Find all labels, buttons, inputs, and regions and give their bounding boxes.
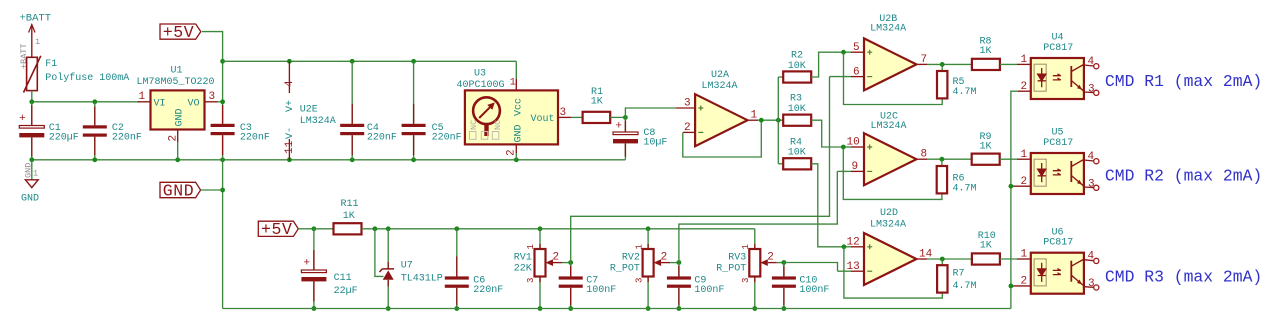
svg-text:100nF: 100nF bbox=[586, 285, 616, 296]
wire rail down to U3 Vcc bbox=[515, 61, 517, 79]
node U2C pin10 junction bbox=[841, 145, 846, 150]
svg-text:1: 1 bbox=[1021, 249, 1028, 261]
shunt regulator U7 TL431LP bbox=[375, 229, 443, 309]
svg-text:Polyfuse 100mA: Polyfuse 100mA bbox=[45, 72, 129, 84]
svg-text:LM324A: LM324A bbox=[702, 81, 738, 92]
svg-text:220nF: 220nF bbox=[367, 133, 397, 144]
op-amp U2D bbox=[838, 208, 933, 285]
node U2A out feedback tee bbox=[759, 118, 764, 123]
svg-text:2: 2 bbox=[661, 252, 668, 264]
wire RV2 wiper to U2C pin9 bbox=[679, 171, 837, 262]
svg-text:VO: VO bbox=[188, 99, 200, 110]
svg-text:2: 2 bbox=[553, 252, 560, 264]
svg-text:3: 3 bbox=[684, 98, 691, 110]
wire U2C output bbox=[927, 158, 972, 160]
node RV2 top bbox=[646, 226, 651, 231]
svg-text:1: 1 bbox=[741, 244, 751, 249]
resistor R6 bbox=[937, 159, 977, 194]
svg-text:RV2: RV2 bbox=[622, 253, 640, 264]
svg-text:RV1: RV1 bbox=[514, 253, 532, 264]
wire bottom GND rail bbox=[223, 308, 1011, 310]
svg-text:V-: V- bbox=[285, 127, 296, 139]
node C5 top bbox=[411, 59, 416, 64]
node C2 gnd bbox=[92, 157, 97, 162]
wire R2 to U2B pin5 bbox=[811, 52, 843, 77]
wire R2 R3 R4 left bus bbox=[777, 77, 779, 164]
node RV2 gnd bbox=[646, 306, 651, 311]
svg-text:2: 2 bbox=[767, 252, 774, 264]
svg-text:220nF: 220nF bbox=[432, 133, 462, 144]
svg-text:R_POT: R_POT bbox=[716, 264, 746, 275]
node C3 gnd bbox=[220, 157, 225, 162]
svg-text:TL431LP: TL431LP bbox=[401, 274, 443, 285]
svg-text:2: 2 bbox=[1021, 81, 1028, 93]
svg-text:10K: 10K bbox=[788, 148, 806, 159]
capacitor C6 bbox=[445, 229, 504, 309]
svg-text:R_POT: R_POT bbox=[610, 264, 640, 275]
svg-text:1: 1 bbox=[526, 244, 536, 249]
fuse F1 bbox=[24, 56, 130, 93]
capacitor C10 bbox=[772, 263, 830, 309]
op-amp U2C bbox=[837, 112, 927, 186]
svg-text:+: + bbox=[616, 121, 623, 133]
node RV2 wiper tee bbox=[677, 260, 682, 265]
wire GND mid rail bbox=[32, 159, 626, 161]
svg-text:+5V: +5V bbox=[261, 220, 293, 239]
node +5V C11 tee bbox=[312, 226, 317, 231]
resistor R1 bbox=[571, 87, 625, 123]
wire R4 to U2D pin12 bbox=[811, 164, 844, 247]
svg-text:3: 3 bbox=[1088, 179, 1095, 191]
svg-text:6: 6 bbox=[853, 66, 860, 78]
svg-text:3: 3 bbox=[560, 107, 567, 119]
optocoupler U6 PC817 bbox=[1012, 227, 1099, 293]
node U1 pin2 gnd bbox=[175, 157, 180, 162]
svg-text:3: 3 bbox=[209, 91, 216, 103]
resistor R3 bbox=[783, 94, 811, 126]
resistor R11 bbox=[314, 199, 362, 235]
node C10 gnd bbox=[782, 306, 787, 311]
node RV3 wiper tee bbox=[782, 260, 787, 265]
svg-text:3: 3 bbox=[1088, 84, 1095, 96]
svg-text:1: 1 bbox=[1021, 149, 1028, 161]
node C2 junction bbox=[92, 99, 97, 104]
svg-text:4: 4 bbox=[1088, 151, 1095, 163]
capacitor C11 bbox=[301, 229, 357, 309]
svg-text:NC: NC bbox=[493, 120, 503, 130]
node C9 gnd bbox=[677, 306, 682, 311]
svg-text:1: 1 bbox=[510, 78, 516, 89]
svg-text:V+: V+ bbox=[285, 100, 296, 112]
svg-text:8: 8 bbox=[921, 149, 928, 161]
svg-text:+BATT: +BATT bbox=[20, 13, 52, 25]
svg-text:Vout: Vout bbox=[530, 114, 554, 125]
wire RV3 wiper to U2D pin13 bbox=[784, 263, 838, 272]
wire RV1 wiper to U2B pin6 bbox=[571, 77, 830, 263]
resistor R5 bbox=[937, 64, 977, 98]
svg-text:2: 2 bbox=[506, 149, 518, 156]
svg-text:220nF: 220nF bbox=[112, 133, 142, 144]
resistor R9 bbox=[972, 132, 1031, 165]
capacitor C5 bbox=[402, 61, 462, 160]
power symbol +BATT bbox=[19, 13, 51, 70]
svg-text:220nF: 220nF bbox=[240, 133, 270, 144]
capacitor C1 bbox=[19, 102, 79, 160]
node C7 gnd bbox=[568, 306, 573, 311]
svg-text:+: + bbox=[19, 113, 26, 125]
svg-text:U7: U7 bbox=[401, 260, 413, 271]
svg-text:4: 4 bbox=[284, 80, 296, 87]
sensor U3 40PC100G bbox=[457, 69, 572, 160]
svg-text:LM324A: LM324A bbox=[870, 24, 906, 35]
svg-text:1: 1 bbox=[1021, 54, 1028, 66]
svg-text:GND: GND bbox=[175, 108, 186, 126]
node U2D pin12 junction bbox=[842, 244, 847, 249]
resistor R7 bbox=[937, 259, 976, 293]
node U7 ref tee bbox=[373, 226, 378, 231]
node C11 gnd bbox=[312, 306, 317, 311]
svg-text:CMD R3 (max 2mA): CMD R3 (max 2mA) bbox=[1105, 267, 1262, 286]
svg-text:4: 4 bbox=[1088, 251, 1095, 263]
svg-text:1K: 1K bbox=[980, 142, 992, 153]
svg-text:Vcc: Vcc bbox=[514, 98, 525, 116]
wire U2B output bbox=[927, 63, 972, 65]
svg-text:C11: C11 bbox=[334, 273, 352, 284]
node RV1 gnd bbox=[538, 306, 543, 311]
svg-text:F1: F1 bbox=[45, 59, 57, 70]
capacitor C4 bbox=[340, 61, 397, 160]
node U6 pin2 on cathode bus bbox=[1009, 284, 1014, 289]
potentiometer RV2 bbox=[610, 229, 679, 309]
svg-text:1: 1 bbox=[751, 110, 758, 122]
capacitor C2 bbox=[83, 102, 142, 160]
svg-text:PC817: PC817 bbox=[1043, 43, 1073, 54]
svg-text:10: 10 bbox=[847, 137, 860, 149]
node U1 VO junction bbox=[220, 99, 225, 104]
node U5 pin2 on cathode bus bbox=[1009, 184, 1014, 189]
op-amp U2E power unit LM324A bbox=[284, 61, 336, 160]
svg-text:3: 3 bbox=[741, 278, 751, 283]
svg-text:VI: VI bbox=[154, 99, 166, 110]
svg-text:22K: 22K bbox=[514, 264, 532, 275]
svg-text:GND: GND bbox=[21, 193, 39, 204]
wire U2D output bbox=[927, 258, 972, 260]
svg-text:3: 3 bbox=[1088, 278, 1095, 290]
node U2B pin5 junction bbox=[841, 50, 846, 55]
svg-text:2: 2 bbox=[1021, 176, 1028, 188]
svg-text:NC: NC bbox=[469, 120, 479, 130]
svg-text:1K: 1K bbox=[980, 46, 992, 57]
node U3 gnd bbox=[514, 157, 519, 162]
resistor R8 bbox=[972, 36, 1031, 70]
svg-text:13: 13 bbox=[847, 261, 860, 273]
node C4 gnd bbox=[350, 157, 355, 162]
svg-text:100nF: 100nF bbox=[799, 285, 829, 296]
resistor R4 bbox=[783, 137, 811, 169]
svg-text:1K: 1K bbox=[343, 211, 355, 222]
wire U2D hysteresis feedback bbox=[844, 247, 942, 298]
svg-text:220µF: 220µF bbox=[49, 133, 79, 144]
svg-text:12: 12 bbox=[847, 237, 860, 249]
svg-text:2: 2 bbox=[1021, 276, 1028, 288]
capacitor C3 bbox=[211, 105, 270, 160]
power flag +5V lower bbox=[258, 220, 314, 239]
node RV3 gnd bbox=[752, 306, 757, 311]
svg-text:4.7M: 4.7M bbox=[953, 87, 977, 98]
node C6 top bbox=[454, 226, 459, 231]
svg-text:100nF: 100nF bbox=[694, 285, 724, 296]
svg-text:3: 3 bbox=[634, 278, 644, 283]
svg-text:10K: 10K bbox=[788, 61, 806, 72]
wire Vref net bbox=[362, 228, 755, 230]
svg-text:U1: U1 bbox=[171, 66, 183, 77]
node GND flag tee bbox=[220, 188, 225, 193]
node U7 cathode tee bbox=[386, 226, 391, 231]
svg-text:4.7M: 4.7M bbox=[953, 184, 977, 195]
svg-text:U2A: U2A bbox=[711, 70, 729, 81]
svg-text:RV3: RV3 bbox=[728, 253, 746, 264]
potentiometer RV3 bbox=[716, 229, 784, 309]
svg-text:1: 1 bbox=[33, 169, 38, 179]
svg-text:LM324A: LM324A bbox=[300, 116, 336, 127]
wire input rail bbox=[32, 101, 139, 103]
svg-text:220nF: 220nF bbox=[473, 285, 503, 296]
node R1/C8 junction bbox=[623, 115, 628, 120]
op-amp U2A bbox=[676, 70, 758, 146]
svg-text:GND: GND bbox=[514, 124, 525, 142]
node U7 gnd bbox=[386, 306, 391, 311]
wire U2A output bbox=[758, 119, 783, 121]
svg-text:4.7M: 4.7M bbox=[953, 281, 977, 292]
wire R3 to U2C pin10 bbox=[811, 120, 843, 147]
svg-text:PC817: PC817 bbox=[1043, 138, 1073, 149]
potentiometer RV1 bbox=[514, 229, 571, 309]
svg-text:11: 11 bbox=[284, 140, 296, 154]
svg-text:22µF: 22µF bbox=[334, 286, 358, 297]
svg-text:1: 1 bbox=[634, 244, 644, 249]
node R bus tee bbox=[776, 118, 781, 123]
svg-text:+5V: +5V bbox=[163, 23, 195, 42]
svg-text:10µF: 10µF bbox=[643, 138, 667, 149]
svg-text:1: 1 bbox=[35, 37, 40, 47]
node RV1 top bbox=[538, 226, 543, 231]
svg-text:1K: 1K bbox=[591, 97, 603, 108]
svg-text:U3: U3 bbox=[474, 69, 486, 80]
svg-text:+: + bbox=[304, 258, 311, 270]
node C6 gnd bbox=[454, 306, 459, 311]
svg-text:+BATT: +BATT bbox=[19, 43, 29, 69]
svg-text:10K: 10K bbox=[788, 104, 806, 115]
power flag +5V top bbox=[160, 23, 201, 42]
capacitor C9 bbox=[667, 263, 725, 309]
node U2E pin4 bbox=[287, 59, 292, 64]
op-amp U2B bbox=[830, 14, 928, 91]
resistor R10 bbox=[972, 231, 1031, 265]
node R7 top bbox=[940, 257, 945, 262]
wire U2B hysteresis feedback bbox=[844, 52, 943, 104]
svg-text:LM78M05_TO220: LM78M05_TO220 bbox=[137, 77, 215, 88]
optocoupler U4 PC817 bbox=[1018, 33, 1099, 99]
node U2E pin11 gnd bbox=[287, 157, 292, 162]
svg-text:R7: R7 bbox=[953, 269, 965, 280]
ground symbol GND left bbox=[21, 160, 39, 205]
node fuse/C1 junction bbox=[29, 99, 34, 104]
wire junction up to U2A + bbox=[625, 108, 676, 117]
node C4 top bbox=[350, 59, 355, 64]
regulator U1 LM78M05_TO220 bbox=[137, 66, 223, 160]
svg-text:7: 7 bbox=[921, 54, 928, 66]
power flag GND bbox=[160, 181, 223, 200]
wire +5V top rail bbox=[223, 60, 517, 62]
svg-text:U2D: U2D bbox=[880, 208, 898, 219]
svg-text:PC817: PC817 bbox=[1043, 238, 1073, 249]
svg-text:CMD R1 (max 2mA): CMD R1 (max 2mA) bbox=[1105, 72, 1262, 91]
capacitor C8 bbox=[613, 117, 667, 159]
wire U2C hysteresis feedback bbox=[843, 147, 942, 199]
svg-text:1: 1 bbox=[139, 91, 146, 103]
svg-text:2: 2 bbox=[168, 135, 180, 142]
node R5 top bbox=[940, 62, 945, 67]
capacitor C7 bbox=[559, 263, 617, 309]
node RV1 wiper tee bbox=[568, 260, 573, 265]
svg-text:LM324A: LM324A bbox=[871, 121, 907, 132]
wire fuse to input rail bbox=[31, 91, 33, 102]
wire opto cathode bus bbox=[1011, 91, 1018, 308]
svg-text:2: 2 bbox=[684, 122, 691, 134]
svg-text:U2E: U2E bbox=[300, 104, 318, 115]
node C1 gnd bbox=[29, 157, 34, 162]
svg-text:4: 4 bbox=[1088, 56, 1095, 68]
node R6 top bbox=[940, 157, 945, 162]
svg-text:1K: 1K bbox=[980, 240, 992, 251]
svg-text:GND: GND bbox=[163, 181, 195, 200]
svg-text:5: 5 bbox=[853, 42, 860, 54]
wire U2A feedback bbox=[683, 120, 762, 157]
wire +5V flag to rail bbox=[202, 32, 223, 124]
svg-text:CMD R2 (max 2mA): CMD R2 (max 2mA) bbox=[1105, 167, 1262, 186]
optocoupler U5 PC817 bbox=[1012, 128, 1099, 194]
node +5V rail tee bbox=[220, 59, 225, 64]
wire GND trunk bbox=[222, 160, 224, 309]
svg-text:3: 3 bbox=[526, 278, 536, 283]
resistor R2 bbox=[783, 51, 811, 83]
svg-text:9: 9 bbox=[852, 161, 859, 173]
svg-text:R11: R11 bbox=[341, 199, 359, 210]
node C5 gnd bbox=[411, 157, 416, 162]
svg-text:LM324A: LM324A bbox=[870, 219, 906, 230]
